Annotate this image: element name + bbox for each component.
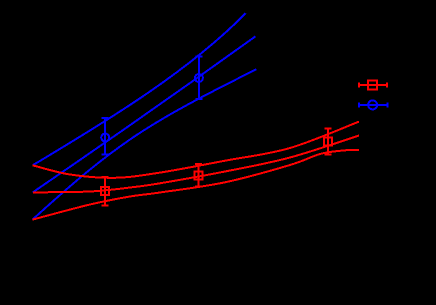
red data point 1 with error bar	[101, 177, 109, 205]
legend red entry: square marker with horizontal error bar	[359, 80, 387, 89]
blue lower band curve	[33, 69, 257, 219]
legend blue entry: circle marker with horizontal error bar	[359, 100, 388, 109]
red lower band curve	[33, 150, 360, 220]
red upper band curve	[33, 122, 360, 178]
red data point 2 with error bar	[194, 164, 202, 187]
blue central curve	[33, 36, 256, 192]
blue data point 1 with error bar	[101, 118, 109, 155]
blue upper band curve	[33, 13, 246, 165]
red data point 3 with error bar	[324, 129, 332, 155]
red central curve	[33, 136, 359, 193]
blue data point 2 with error bar	[195, 57, 203, 99]
